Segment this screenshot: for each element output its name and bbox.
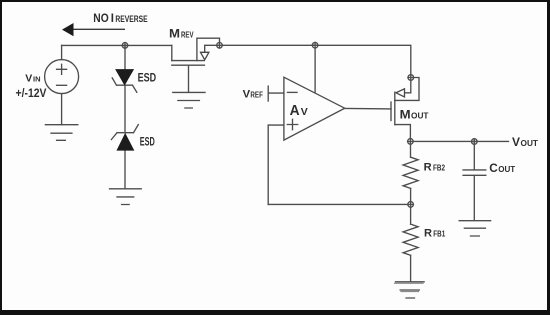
op-amp AV triangle [284,77,345,140]
junction node at MOUT source [408,139,414,145]
svg-text:C: C [489,161,498,175]
ground for VIN [45,125,77,141]
wire junction to RFB1 [410,207,412,224]
MREV gate bar [172,64,205,66]
MOSFET MREV left stub (source) [171,45,173,60]
MREV channel bar [172,60,205,62]
wire Vin bottom [61,94,63,125]
svg-text:ESD: ESD [140,136,155,148]
wire ESD branch upper [124,45,126,69]
svg-text:OUT: OUT [498,164,516,174]
wire Mout source to Vout [413,140,508,142]
svg-text:+/-12V: +/-12V [16,88,47,100]
wire RFB2 to junction [410,188,412,201]
plus sign in source [57,64,67,74]
svg-text:I: I [111,11,114,25]
MREV bulk arrow lead [205,45,217,52]
plus input lead [268,125,284,204]
svg-text:NO: NO [93,11,108,25]
svg-text:R: R [424,227,432,239]
zener bar of ESD diode D1 [112,78,137,92]
voltage source VIN circle [45,60,79,94]
svg-text:M: M [169,27,180,41]
op-amp plus input symbol [287,119,297,129]
svg-text:REV: REV [181,30,194,40]
junction node on rail at ESD [122,43,128,49]
svg-text:V: V [301,106,308,118]
MREV drain stub path [197,38,220,60]
svg-text:REVERSE: REVERSE [115,14,147,25]
MOSFET MOUT gate bar [390,102,392,121]
wire node to op-amp supply [314,48,316,93]
svg-text:ESD: ESD [138,73,157,85]
op-amp output lead [345,107,391,110]
wire ESD to ground [124,150,126,189]
arrow NO IREVERSE line [73,28,125,30]
junction node at MOUT drain [408,75,414,81]
svg-text:R: R [424,162,432,174]
wire RFB1 to ground [410,255,412,281]
wire Vin top stub [61,45,63,59]
junction node at MREV drain [217,43,223,49]
svg-text:FB2: FB2 [433,164,445,173]
zener bar of ESD diode D2 [111,125,138,140]
arrow NO IREVERSE head [62,23,74,36]
VREF input lead [268,92,284,94]
wire top rail right (node to Mout corner) [222,45,410,75]
svg-text:V: V [512,135,520,149]
MOUT bulk arrow (hollow, pointing left) [396,89,405,97]
svg-text:V: V [25,74,32,85]
resistor RFB2 zigzag [403,157,418,188]
MOUT drain path from node [395,78,419,101]
ground for RFB1 [396,282,425,298]
ESD diode D2 triangle (cathode up) [117,134,134,150]
op-amp minus input symbol [288,91,298,93]
ground for ESD chain [110,189,142,205]
svg-text:OUT: OUT [411,111,429,121]
VREF terminal tick [267,86,269,101]
ground for MREV gate [173,92,205,108]
MOUT channel bar [394,92,396,124]
wire Vout node down to capacitor [473,144,475,169]
junction node at op-amp supply [312,42,318,48]
capacitor COUT plates [463,170,486,175]
ESD diode D1 triangle (cathode down) [116,70,134,85]
wire top rail left (Vin to Mrev) [62,44,172,46]
svg-text:FB1: FB1 [433,229,445,238]
svg-text:REF: REF [250,91,263,100]
MREV gate lead [188,65,190,92]
resistor RFB1 zigzag [403,224,418,255]
MOUT bulk arrow lead [405,80,411,93]
feedback wire to RFB junction [268,203,408,205]
border frame [0,0,550,2]
svg-text:A: A [290,103,300,119]
minus sign in source [57,84,67,86]
svg-text:IN: IN [33,75,41,84]
ground for COUT [459,221,490,236]
wire down from node to RFB2 [410,144,412,157]
junction node RFB divider [408,202,414,208]
MOUT source stub [395,125,411,139]
MREV bulk arrow (hollow, pointing down) [201,52,209,60]
wire between ESD diodes [124,85,126,133]
svg-text:M: M [400,110,411,122]
wire capacitor to ground [473,176,475,221]
svg-text:OUT: OUT [521,138,539,148]
junction node at COUT [472,139,478,145]
